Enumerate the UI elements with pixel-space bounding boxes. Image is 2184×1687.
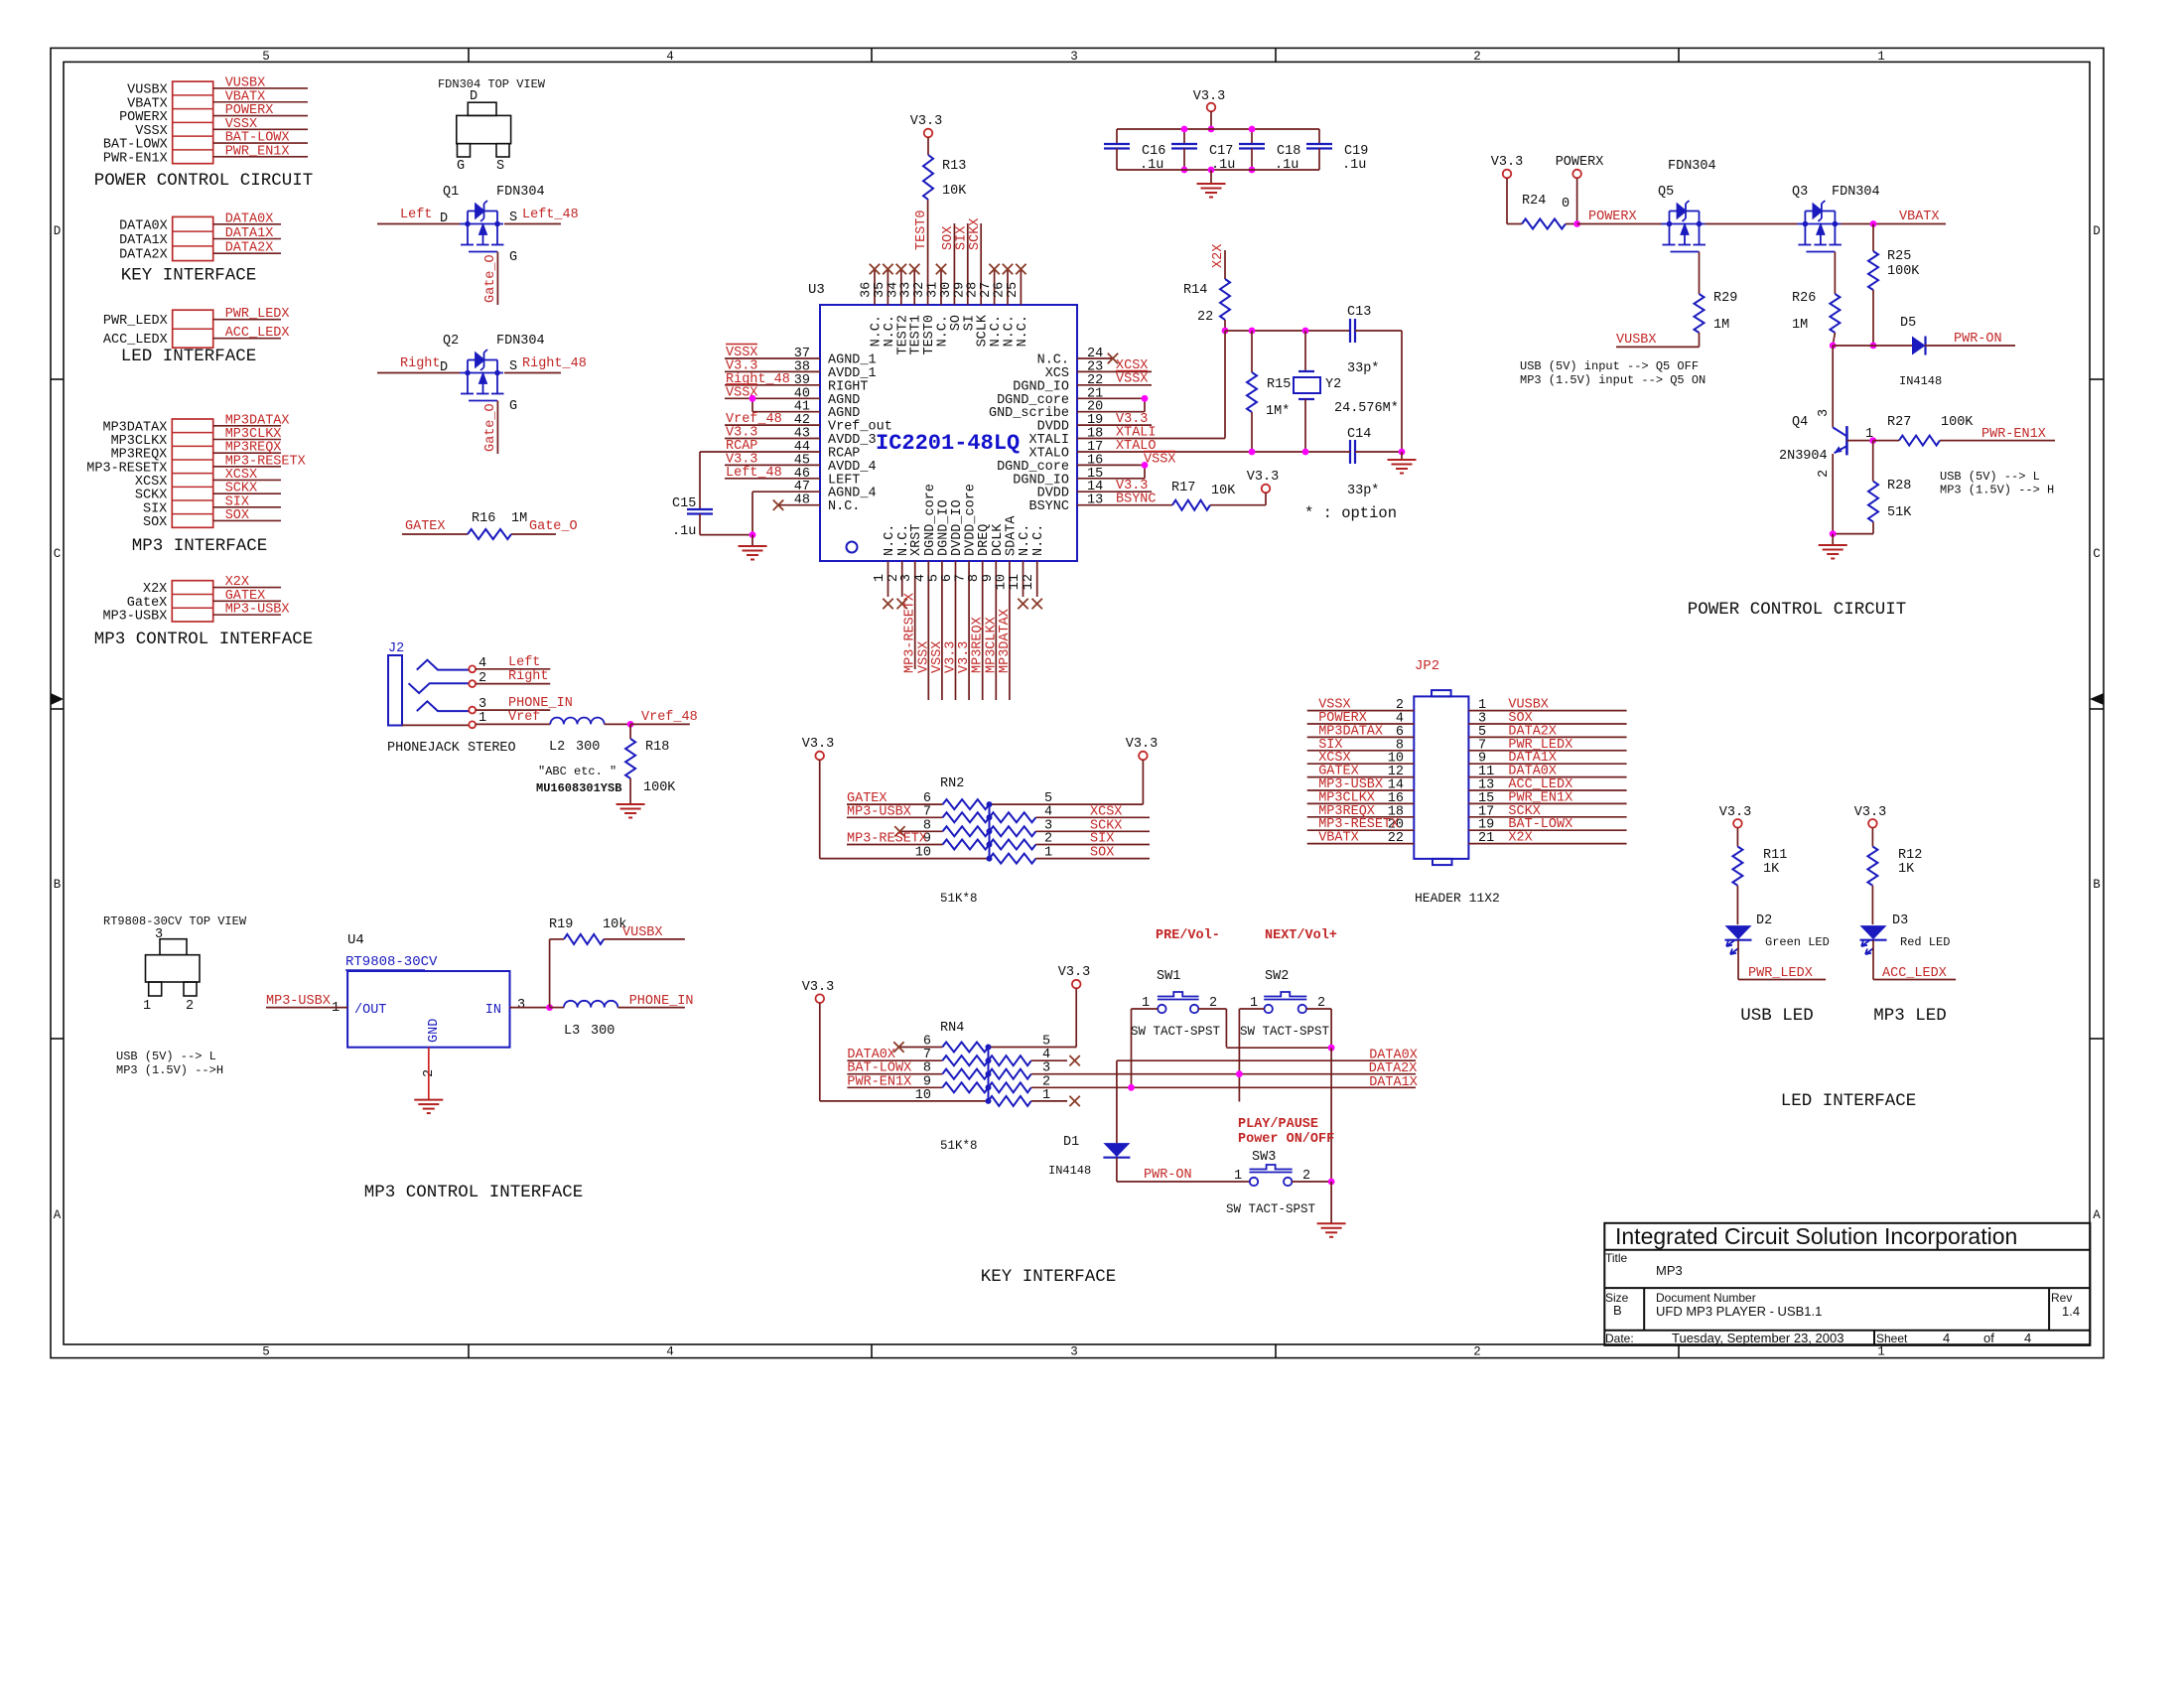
connector J2 phonejack stereo [388,641,404,726]
connector: mp3 control interface [94,575,314,649]
transistor Q2 FDN304 [377,334,587,454]
svg-text:MP3 INTERFACE: MP3 INTERFACE [132,536,268,556]
U3 pin 5 DGND_IO [926,499,951,700]
svg-text:USB (5V) --> L: USB (5V) --> L [1940,470,2040,484]
svg-text:B: B [54,878,62,892]
svg-text:GateX: GateX [127,596,168,611]
svg-text:PHONEJACK STEREO: PHONEJACK STEREO [387,741,516,756]
JP2 row 8-7 [1307,738,1627,754]
U3 pin 41 AGND [752,400,860,422]
U3 pin 15 DGND_IO [1013,467,1145,489]
capacitor C19 .1u [1306,144,1368,173]
U3 pin 24 N.C. [1037,347,1119,368]
svg-text:100K: 100K [1941,415,1974,430]
svg-text:Q1: Q1 [443,185,459,200]
net label PWR_LEDX wire [1738,966,1826,981]
text RN2 value [940,892,978,906]
svg-text:3: 3 [1070,1345,1078,1359]
svg-text:PWR-EN1X: PWR-EN1X [103,151,168,166]
svg-text:B: B [2093,878,2101,892]
U3 pin 1 N.C. [873,524,897,610]
svg-text:C13: C13 [1347,305,1371,320]
svg-text:Gate_O: Gate_O [483,254,498,303]
svg-text:300: 300 [576,740,600,755]
net label ACC_LEDX wire [1873,966,1956,981]
net label VSSX pin16 [1144,452,1175,468]
capacitor C18 .1u [1239,126,1300,174]
svg-text:GND: GND [427,1019,442,1043]
svg-text:R16: R16 [472,511,495,526]
transistor Q3 FDN304 [1792,185,1946,294]
svg-text:48: 48 [794,493,810,508]
svg-text:RN4: RN4 [940,1021,964,1036]
resistor R12 1K [1867,847,1922,925]
svg-text:POWER CONTROL CIRCUIT: POWER CONTROL CIRCUIT [1688,600,1907,620]
svg-text:Y2: Y2 [1325,377,1341,392]
svg-text:V3.3: V3.3 [1058,965,1090,980]
net label TEST0 [914,210,929,250]
svg-text:A: A [54,1208,62,1222]
svg-text:S: S [496,159,504,174]
svg-text:13: 13 [1087,493,1103,508]
net label SIX [955,226,970,250]
text phonejack stereo [387,741,516,756]
svg-text:A: A [2093,1208,2101,1222]
net label Left J2 [476,655,550,670]
svg-text:VUSBX: VUSBX [622,925,663,940]
svg-text:NEXT/Vol+: NEXT/Vol+ [1265,928,1337,943]
U3 pin 18 XTALI [1028,427,1225,449]
svg-text:FDN304: FDN304 [1832,185,1880,200]
JP2 row 18-17 [1307,804,1627,820]
U3 pin 10 SDATA [994,515,1019,700]
node PWR-ON junction [1830,343,1912,428]
svg-text:KEY INTERFACE: KEY INTERFACE [981,1267,1117,1287]
svg-text:Integrated Circuit Solution In: Integrated Circuit Solution Incorporatio… [1615,1223,2017,1249]
svg-text:2: 2 [1473,50,1481,64]
svg-text:Green LED: Green LED [1765,935,1830,949]
svg-text:PHONE_IN: PHONE_IN [629,994,694,1009]
svg-text:IN4148: IN4148 [1899,374,1942,388]
svg-text:1K: 1K [1898,862,1915,877]
svg-text:R17: R17 [1171,481,1195,495]
svg-text:S: S [509,211,517,225]
svg-text:R28: R28 [1887,479,1911,493]
svg-text:1M: 1M [1792,318,1808,333]
svg-text:PWR_LEDX: PWR_LEDX [225,307,290,322]
svg-text:1M: 1M [1713,318,1729,333]
U3 pin 11 N.C. [1008,524,1032,610]
svg-text:C14: C14 [1347,427,1371,442]
svg-text:G: G [509,399,517,414]
svg-text:KEY INTERFACE: KEY INTERFACE [121,266,257,286]
svg-text:1M: 1M [511,511,527,526]
U3 pin 46 LEFT [725,466,860,489]
RN2 row 9-2 [847,832,1150,850]
svg-text:.1u: .1u [672,524,696,539]
svg-text:R19: R19 [549,917,573,932]
svg-text:SOX: SOX [143,515,167,530]
transistor Q1 FDN304 [377,185,579,305]
svg-text:3: 3 [517,998,525,1013]
svg-text:PWR_LEDX: PWR_LEDX [103,314,168,329]
svg-text:11: 11 [1008,574,1023,590]
svg-text:51K*8: 51K*8 [940,1139,978,1153]
power terminal POWERX [1556,155,1604,227]
svg-text:SW1: SW1 [1157,969,1180,984]
net label DATA0X right wire [1117,1049,1418,1063]
svg-text:V3.3: V3.3 [802,980,834,995]
net label PWR-ON right [1949,332,2015,347]
svg-text:MP3 LED: MP3 LED [1873,1006,1947,1026]
svg-text:300: 300 [591,1024,614,1039]
U4 pin2 ground [414,1048,443,1113]
RT9808 top view package [103,914,247,1014]
svg-text:RN2: RN2 [940,776,964,791]
svg-text:DATA1X: DATA1X [1369,1075,1418,1090]
svg-text:V3.3: V3.3 [1126,737,1158,752]
svg-text:IN: IN [485,1003,501,1018]
net label V3.3 [957,641,972,673]
U3 pin 21 DGND_core [997,386,1145,408]
resistor R15 1M* [1247,328,1291,452]
svg-text:1: 1 [873,574,887,582]
ground caps [1197,184,1226,198]
svg-text:VUSBX: VUSBX [225,75,266,90]
svg-text:3: 3 [1817,409,1832,417]
svg-text:N.C.: N.C. [828,499,860,514]
svg-text:100K: 100K [1887,264,1920,279]
svg-text:DATA1X: DATA1X [225,226,274,241]
svg-text:X2X: X2X [143,582,167,597]
resistor R16 1M [402,511,578,539]
U3 pin 19 DVDD [1037,413,1152,435]
svg-text:4: 4 [1943,1331,1950,1345]
net label XTALI pin18 [1116,426,1157,441]
svg-text:25: 25 [1006,282,1021,298]
svg-text:BSYNC: BSYNC [1028,499,1069,514]
net label MP3CLKX [984,617,999,673]
svg-text:D5: D5 [1900,316,1916,331]
net label VUSBX wire [1616,333,1700,348]
svg-text:SW TACT-SPST: SW TACT-SPST [1131,1025,1221,1039]
U3 pin 35 N.C. [873,264,897,348]
svg-text:DATA2X: DATA2X [119,248,168,263]
text Q5 note [1520,359,1706,387]
JP2 row 6-5 [1307,724,1627,740]
connector: key interface [119,211,281,285]
svg-text:33p*: 33p* [1347,361,1379,376]
resistor R11 1K [1732,847,1787,925]
text NEXT/Vol+ [1265,928,1337,943]
text U4 note [116,1050,223,1077]
svg-text:2: 2 [1044,832,1052,847]
power terminal V3.3 RN4 left [802,980,834,1101]
text HEADER 11X2 [1415,891,1500,906]
svg-text:R24: R24 [1522,194,1546,209]
svg-text:Vref_48: Vref_48 [641,710,698,725]
U3 pin 29 SI [952,223,977,331]
svg-text:V3.3: V3.3 [1193,89,1225,104]
U3 pin 45 AVDD_4 [725,452,877,475]
resistor R18 100K [625,724,676,804]
svg-text:FDN304: FDN304 [496,185,545,200]
svg-text:S: S [509,359,517,374]
svg-text:TEST0: TEST0 [914,210,929,250]
svg-text:L2: L2 [549,740,565,755]
svg-text:VUSBX: VUSBX [127,82,168,97]
net label Vref J2 [476,710,550,725]
svg-text:33p*: 33p* [1347,484,1379,498]
svg-text:POWERX: POWERX [225,103,274,118]
resistor R17 10K [1171,481,1266,510]
svg-text:Sheet: Sheet [1876,1332,1908,1345]
svg-text:MP3 (1.5V) --> H: MP3 (1.5V) --> H [1940,484,2054,497]
svg-text:12: 12 [1022,574,1036,590]
RN4 row 10-1 [820,1088,1080,1106]
svg-text:Right: Right [400,356,441,371]
svg-text:U4: U4 [347,932,364,948]
svg-text:1: 1 [1234,1169,1242,1184]
U3 pin 43 AVDD_3 [725,426,877,449]
svg-text:of: of [1983,1331,1994,1345]
text MP3 CONTROL INTERFACE title [364,1183,584,1202]
resistor R26 1M [1792,291,1840,346]
power terminal V3.3 R17 [1247,470,1279,505]
power terminal V3.3 RN4 mid [1058,965,1090,1048]
net label MP3DATAX [998,609,1013,673]
svg-text:IC2201-48LQ: IC2201-48LQ [876,431,1020,456]
svg-text:C16: C16 [1142,144,1165,159]
svg-text:MP3 CONTROL INTERFACE: MP3 CONTROL INTERFACE [364,1183,584,1202]
svg-text:"ABC etc. ": "ABC etc. " [538,765,616,778]
net label DATA1X right [1369,1075,1418,1090]
net label SCKX [968,218,983,250]
net label MP3REQX [971,617,986,673]
U3 pin 8 DREQ [967,524,992,700]
svg-text:U3: U3 [808,282,825,298]
net label V3.3 pin14 [1116,479,1148,493]
svg-text:VSSX: VSSX [1144,453,1175,468]
net label SOX [941,226,956,250]
svg-text:MP3-USBX: MP3-USBX [102,610,167,625]
svg-text:VSSX: VSSX [225,117,257,132]
svg-text:SW2: SW2 [1265,969,1289,984]
power terminal V3.3 caps [1193,89,1225,132]
J2 ring contact pin2 [409,671,487,693]
svg-text:XCSX: XCSX [1090,804,1122,819]
RN4 row 9-2 [847,1074,1416,1092]
FDN304 top view package [438,77,546,174]
svg-text:10: 10 [915,846,931,861]
svg-text:2N3904: 2N3904 [1779,449,1828,464]
U3 pin 6 DVDD_IO [940,499,965,700]
text option note [1304,504,1397,522]
text power control circuit title [1688,600,1907,620]
wire crystal right [1401,331,1403,447]
U3 pin 39 RIGHT [725,372,869,395]
svg-text:R29: R29 [1713,291,1737,306]
svg-text:POWERX: POWERX [1588,210,1637,224]
connector JP2 HEADER 11X2 [1414,658,1468,865]
svg-text:C18: C18 [1277,144,1300,159]
U3 pin 9 DCLK [981,523,1006,700]
text Q4 note [1940,470,2054,497]
svg-text:Tuesday, September 23, 2003: Tuesday, September 23, 2003 [1672,1331,1843,1345]
U3 pin 16 DGND_core [997,453,1145,475]
U3 pin 47 AGND_4 [752,480,877,501]
svg-text:POWER CONTROL CIRCUIT: POWER CONTROL CIRCUIT [94,171,314,191]
U3 pin 48 N.C. [773,493,861,515]
svg-text:R12: R12 [1898,848,1922,863]
svg-text:0: 0 [1562,197,1570,211]
svg-text:IN4148: IN4148 [1048,1164,1091,1178]
svg-text:10: 10 [915,1088,931,1103]
U3 pin 20 GND_scribe [989,400,1145,422]
svg-text:PLAY/PAUSE: PLAY/PAUSE [1238,1117,1318,1132]
svg-text:VSSX: VSSX [135,124,167,139]
JP2 row 10-9 [1307,751,1627,767]
svg-text:Date:: Date: [1605,1332,1634,1345]
svg-text:1: 1 [1044,846,1052,861]
wire pin47 down to ground [700,492,755,538]
U3 pin 40 AGND [725,384,860,408]
svg-text:4: 4 [666,1345,674,1359]
net label Vref_48 wire [627,710,698,728]
svg-text:/OUT: /OUT [354,1003,386,1018]
svg-text:C: C [54,547,62,561]
svg-text:MP3-RESETX: MP3-RESETX [847,832,927,847]
RN2 row 7-4 [847,804,1150,822]
svg-text:C17: C17 [1209,144,1233,159]
power terminal V3.3 R13 [910,114,942,155]
title block [1604,1223,2090,1345]
svg-text:LED INTERFACE: LED INTERFACE [121,347,257,366]
capacitor C16 .1u [1104,144,1165,173]
svg-text:1: 1 [1042,1088,1050,1103]
U3 pin 33 TEST1 [899,264,924,355]
net label PWR-ON wire [1117,1168,1250,1183]
net label VSSX [916,641,931,673]
power terminal V3.3 R11 [1719,805,1751,847]
svg-text:Q3: Q3 [1792,185,1808,200]
power terminal V3.3 RN2 left [802,737,834,859]
svg-text:22: 22 [1388,831,1404,846]
svg-text:Gate_O: Gate_O [529,519,578,534]
svg-text:Left: Left [400,208,432,222]
power terminal V3.3 R24 [1491,155,1523,224]
inductor L3 300 [550,1001,685,1039]
resistor R24 0 [1507,194,1577,229]
net label VSSX pin22 [1116,371,1148,387]
svg-text:PWR-ON: PWR-ON [1144,1168,1192,1183]
U3 pin 42 Vref_out [725,412,892,435]
svg-text:1: 1 [332,1001,340,1016]
U3 pin 31 N.C. [926,264,951,348]
JP2 row 4-3 [1307,711,1627,727]
net label VBATX [1870,210,1940,227]
wire XTALO bottom bus [1249,449,1350,456]
U4 pin3 wire [510,998,553,1013]
resistor network RN4 51K*8 [940,1021,989,1101]
inductor L2 300 [549,718,630,755]
net label PHONE_IN J2 [476,696,573,711]
svg-text:D: D [54,224,62,238]
svg-text:100K: 100K [643,780,676,795]
svg-text:N.C.: N.C. [1016,315,1030,347]
U3 pin 4 DGND_core [913,484,938,700]
svg-text:USB LED: USB LED [1740,1006,1814,1026]
svg-text:JP2: JP2 [1415,658,1439,674]
svg-text:51K: 51K [1887,505,1912,520]
svg-text:UFD MP3 PLAYER - USB1.1: UFD MP3 PLAYER - USB1.1 [1656,1304,1822,1319]
tie pins 21-20 [1142,395,1149,412]
resistor R29 1M [1695,291,1738,347]
U3 pin 25 N.C. [1006,264,1030,348]
U3 pin 23 XCS [1045,359,1152,381]
svg-text:POWERX: POWERX [119,110,168,125]
svg-text:RT9808-30CV: RT9808-30CV [345,954,438,970]
net label VUSBX R19 [622,925,663,940]
U3 pin 22 DGND_IO [1013,373,1152,395]
svg-text:N.C.: N.C. [1031,524,1046,556]
IC U3 IC2201-48LQ [808,282,1077,561]
svg-text:1: 1 [1877,50,1885,64]
svg-text:24.576M*: 24.576M* [1334,401,1399,416]
ground Q4 [1819,534,1847,559]
svg-text:Right_48: Right_48 [522,356,587,371]
svg-text:G: G [457,159,465,174]
svg-text:GATEX: GATEX [225,589,266,604]
power terminal V3.3 R12 [1854,805,1886,847]
svg-text:PWR-EN1X: PWR-EN1X [847,1074,911,1089]
svg-text:Right: Right [508,669,549,684]
svg-text:VSSX: VSSX [1116,372,1148,387]
svg-text:MP3-USBX: MP3-USBX [225,603,290,618]
J2 sleeve pin1 [402,711,486,728]
resistor network RN2 51K*8 [940,776,990,859]
svg-text:Rev: Rev [2051,1291,2072,1305]
svg-text:FDN304 TOP VIEW: FDN304 TOP VIEW [438,77,546,91]
svg-text:R11: R11 [1763,848,1787,863]
resistor R28 51K [1830,441,1912,537]
U3 pin 32 TEST0 [912,200,937,355]
svg-text:RT9808-30CV TOP VIEW: RT9808-30CV TOP VIEW [103,914,247,928]
svg-text:PHONE_IN: PHONE_IN [508,696,573,711]
net label X2X wire [1211,244,1226,279]
wire cap bus top [1117,129,1319,144]
svg-text:D: D [2093,224,2101,238]
svg-text:Gate_O: Gate_O [483,403,498,452]
ground crystal [1388,452,1417,474]
svg-text:V3.3: V3.3 [1854,805,1886,820]
svg-text:DATA0X: DATA0X [119,218,168,233]
svg-text:V3.3: V3.3 [1247,470,1279,485]
svg-text:10K: 10K [942,184,967,199]
U3 pin 17 XTALO [1028,440,1252,462]
svg-text:VUSBX: VUSBX [1616,333,1657,348]
svg-text:1: 1 [143,999,151,1014]
crystal Y2 24.576M* [1294,328,1399,452]
diode D1 IN4148 [1048,1060,1130,1182]
net label XTALO pin17 [1116,439,1157,454]
svg-text:2: 2 [1817,470,1832,478]
net label XCSX pin23 [1116,358,1148,373]
svg-text:2: 2 [1473,1345,1481,1359]
svg-text:N.C.: N.C. [1018,524,1032,556]
U3 pin 44 RCAP [700,439,860,462]
tie pins 16-15 [1142,462,1149,479]
